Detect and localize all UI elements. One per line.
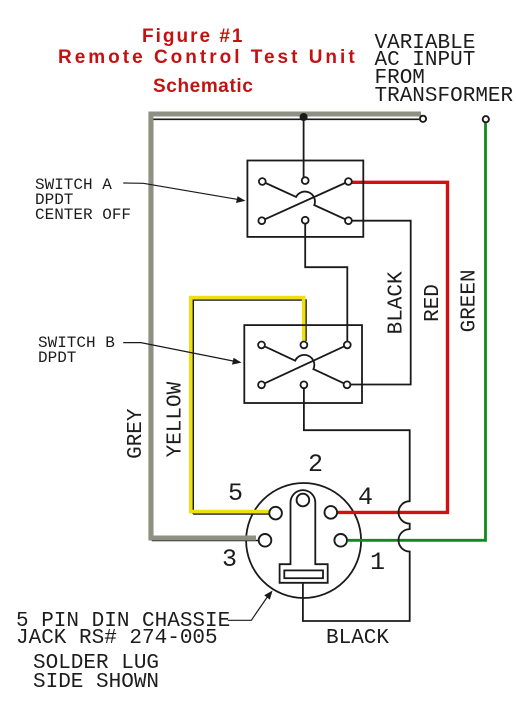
DIN pin 4 circle [325, 506, 338, 519]
grey wire terminal circle [420, 116, 426, 122]
label GREEN (vertical) [461, 269, 479, 332]
pin number 3 [222, 545, 237, 574]
DIN pin 5 circle [269, 507, 282, 520]
switch A pin circles [258, 177, 351, 224]
label SWITCH A DPDT CENTER OFF [35, 178, 131, 223]
label 5 PIN DIN CHASSIE JACK RS# 274-005 [16, 613, 230, 649]
yellow wire [191, 298, 304, 512]
label SWITCH B DPDT [38, 336, 115, 366]
label RED (vertical) [425, 284, 443, 322]
switch A crossing line with hop (top-left to bottom-right) [262, 182, 348, 221]
green wire terminal circle [483, 116, 489, 122]
label BLACK (vertical) [388, 271, 406, 334]
pin number 1 [370, 548, 385, 577]
label GREY (vertical) [128, 409, 146, 459]
grey wire (black underline) [153, 119, 420, 540]
pin number 5 [228, 479, 243, 508]
DIN jack keyhole outline [280, 490, 328, 583]
switch A crossing line (bottom-left to top-right) [262, 182, 349, 221]
switch B crossing line with hop (top-left to bottom-right) [262, 345, 348, 385]
DIN jack lug inner rect [284, 570, 323, 578]
wire: top junction to switch A top-middle pin [303, 117, 305, 180]
DIN pin 2 circle [297, 494, 310, 507]
title line 1 [142, 30, 244, 44]
leader 5 PIN DIN jack [228, 596, 268, 620]
leader SWITCH A [123, 183, 240, 200]
DIN pin 3 circle [259, 534, 272, 547]
yellow wire (black underline) [193, 300, 306, 514]
green wire [348, 123, 486, 541]
grey wire [151, 114, 421, 538]
wire: switch A bottom-right to switch B bottom-right (via right side) [348, 221, 411, 385]
red wire [333, 182, 448, 512]
title line 2 [58, 51, 358, 65]
label YELLOW (vertical) [168, 382, 186, 457]
leader SWITCH B [123, 343, 235, 362]
label VARIABLE AC INPUT FROM TRANSFORMER [375, 35, 514, 106]
switch B pin circles [258, 342, 351, 389]
pin number 4 [358, 483, 373, 512]
wire: switch A bottom-middle to switch B top-right [305, 221, 347, 344]
junction dot on grey bus [300, 113, 308, 121]
jack body circle (white fill, drawn first so wires overlay) [246, 483, 361, 598]
label BLACK (bottom) [326, 630, 389, 648]
switch A box [247, 161, 363, 237]
title line 3 [153, 80, 253, 94]
DIN pin 1 circle [334, 534, 347, 547]
pin number 2 [308, 450, 323, 479]
switch B crossing line (bottom-left to top-right) [262, 345, 348, 385]
switch B box [244, 325, 362, 403]
wire: switch B bottom-middle down, right, down with hops, to DIN tab [303, 386, 410, 621]
label SOLDER LUG SIDE SHOWN [33, 654, 159, 692]
